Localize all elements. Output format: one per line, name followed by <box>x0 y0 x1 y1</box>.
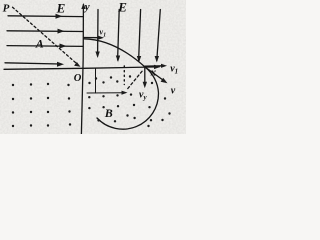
B field dots left region <box>12 83 71 127</box>
svg-text:E: E <box>117 0 127 15</box>
field line 3 (left E region) <box>7 45 83 48</box>
svg-text:B: B <box>104 106 113 120</box>
svg-text:P: P <box>3 3 10 15</box>
svg-text:A: A <box>35 37 44 51</box>
arrowhead at end of dashed trajectory near O <box>74 62 80 67</box>
B field dots right region <box>88 75 171 127</box>
arrow on line b <box>116 56 120 63</box>
arrow on field line 3 <box>60 44 67 49</box>
v resultant velocity arrow <box>145 67 165 82</box>
arrow on line a <box>95 52 99 59</box>
v1 exit velocity arrow at x axis <box>145 65 163 67</box>
y-axis arrowhead <box>81 3 85 9</box>
x-axis <box>4 67 159 69</box>
arrow on field line 2 <box>58 29 65 34</box>
E field line c (right region, downward) <box>139 10 141 61</box>
arrow on line d <box>155 56 159 63</box>
y-axis <box>81 5 83 135</box>
svg-text:O: O <box>74 73 82 84</box>
dotted vertical construction line below axis <box>123 66 125 85</box>
svg-text:v: v <box>171 86 176 97</box>
horizontal construction line through circle centre <box>87 92 124 94</box>
arrow on line c <box>137 56 141 63</box>
x-axis arrowhead <box>154 65 161 69</box>
svg-text:E: E <box>56 1 66 16</box>
vy velocity component arrow <box>144 68 146 85</box>
svg-text:y: y <box>83 1 90 13</box>
vertical construction line below origin <box>95 68 97 93</box>
E field line d (right region, downward) <box>157 10 161 61</box>
field line 4 (left E region) <box>5 63 60 64</box>
field line 2 (left E region) <box>7 30 83 33</box>
v1 entry velocity arrow <box>84 37 100 39</box>
dashed trajectory P to O <box>13 7 77 63</box>
E field line b (right region, downward) <box>118 10 120 61</box>
E field line a (right region, downward) <box>97 10 99 57</box>
parabolic trajectory in right E region <box>84 39 145 67</box>
circular arc in B field <box>97 67 159 129</box>
arrow on field line 4 <box>57 62 64 67</box>
arrow on field line 1 <box>56 14 63 19</box>
svg-text:x: x <box>150 67 157 79</box>
field line 1 (left E region) <box>8 15 83 18</box>
dashed radius to entry point <box>128 70 144 89</box>
